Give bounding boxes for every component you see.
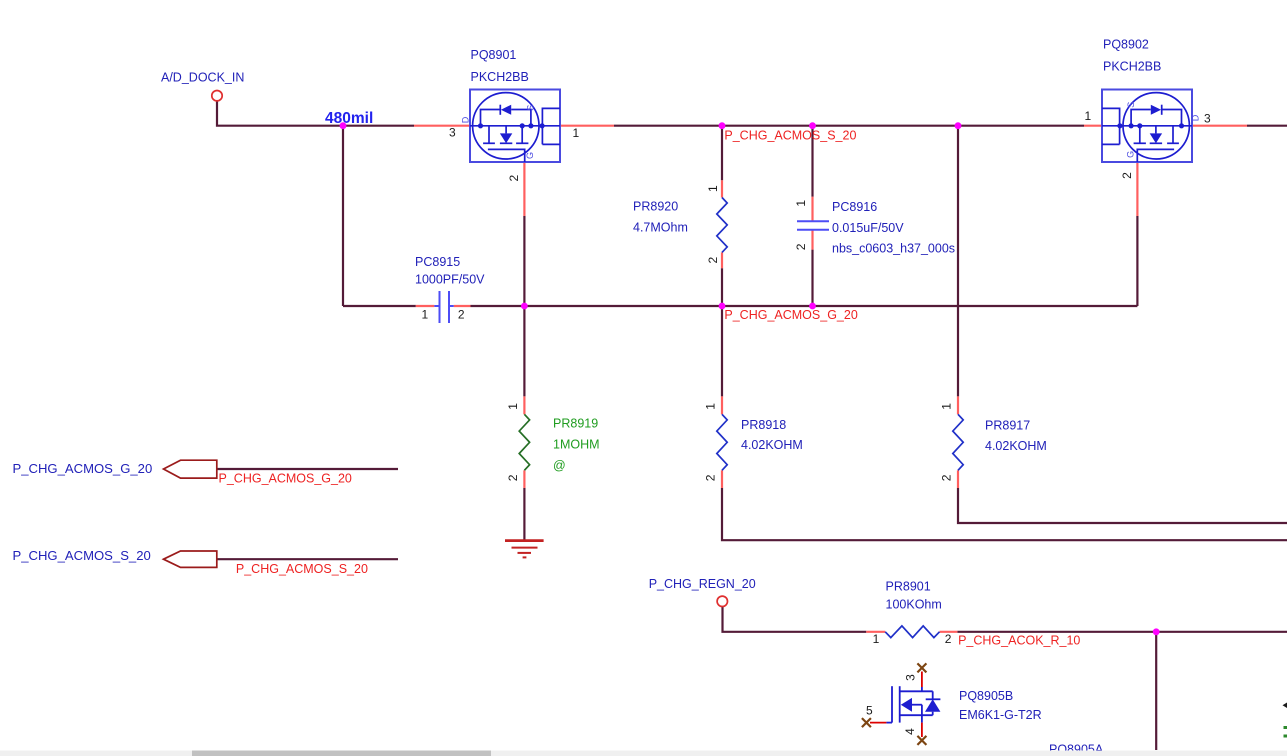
- port P_CHG_REGN_20 circle: [717, 596, 727, 606]
- transistor PQ8901: [470, 90, 560, 163]
- wire PR8917 bottom L: [958, 488, 1287, 523]
- wire PQ8901 pin2 lower: [523, 216, 525, 306]
- svg-text:A/D_DOCK_IN: A/D_DOCK_IN: [161, 71, 244, 85]
- wire stub PR8919 pin2: [523, 470, 525, 488]
- node 480mil junction: [340, 122, 347, 129]
- wire stub PC8916 pin2: [811, 230, 813, 250]
- svg-text:PKCH2BB: PKCH2BB: [1103, 60, 1161, 74]
- svg-text:S: S: [1126, 102, 1136, 108]
- wire node 958 vertical: [957, 126, 959, 397]
- net wires (dark): [217, 101, 1287, 750]
- svg-text:EM6K1-G-T2R: EM6K1-G-T2R: [959, 708, 1042, 722]
- pin stub wires (highlighted): [414, 126, 1247, 632]
- svg-text:4: 4: [903, 728, 917, 735]
- port A/D_DOCK_IN circle: [212, 91, 222, 101]
- svg-text:P_CHG_ACMOS_S_20: P_CHG_ACMOS_S_20: [13, 548, 151, 563]
- svg-text:1: 1: [706, 185, 720, 192]
- scrollbar thumb: [192, 751, 491, 756]
- svg-text:PC8915: PC8915: [415, 255, 460, 269]
- svg-text:3: 3: [904, 674, 918, 681]
- wire stub PR8901 pin1: [866, 631, 885, 633]
- node rail-PC8916: [809, 122, 816, 129]
- svg-text:PR8901: PR8901: [886, 580, 931, 594]
- svg-text:2: 2: [507, 174, 521, 181]
- wire PC8916 top: [811, 126, 813, 197]
- transistor PQ8905B: [886, 686, 940, 722]
- resistor PR8917: [953, 414, 963, 470]
- svg-text:S: S: [525, 105, 535, 111]
- scrollbar track: [0, 751, 1287, 756]
- transistor PQ8902 (mirrored): [1102, 90, 1192, 163]
- svg-text:G: G: [525, 152, 535, 159]
- wire PQ8905B gate lead: [870, 722, 886, 724]
- wire stub PC8915 pin1: [416, 305, 435, 307]
- wire stub PQ8902 pin3: [1192, 125, 1247, 127]
- svg-text:4.02KOHM: 4.02KOHM: [741, 438, 803, 452]
- resistor PR8918: [717, 414, 727, 470]
- resistor PR8901: [885, 626, 939, 638]
- wire PR8919 to ground: [523, 488, 525, 540]
- svg-text:2: 2: [945, 632, 952, 646]
- capacitor PC8916: [797, 221, 829, 230]
- wire port P_CHG_ACMOS_G_20: [217, 468, 398, 470]
- wire stub PR8901 pin2: [940, 631, 958, 633]
- svg-text:PQ8902: PQ8902: [1103, 38, 1149, 52]
- port P_CHG_ACMOS_G_20 pentagon: [164, 460, 217, 478]
- svg-text:3: 3: [1204, 112, 1211, 126]
- wire node PR8919 top: [523, 306, 525, 396]
- svg-text:PKCH2BB: PKCH2BB: [471, 70, 529, 84]
- wire P_CHG_ACOK net: [957, 631, 1287, 633]
- no-connect X pin3: [917, 663, 926, 672]
- svg-text:P_CHG_ACMOS_S_20: P_CHG_ACMOS_S_20: [236, 562, 368, 576]
- svg-text:P_CHG_REGN_20: P_CHG_REGN_20: [649, 577, 756, 591]
- svg-text:3: 3: [449, 126, 456, 140]
- svg-text:2: 2: [1120, 172, 1134, 179]
- wire 480mil vertical: [342, 126, 344, 306]
- wire main rail mid segment: [614, 125, 1084, 127]
- resistor PR8920: [717, 198, 727, 253]
- svg-text:100KOhm: 100KOhm: [886, 598, 942, 612]
- wire PC8916 bottom: [811, 250, 813, 306]
- wire stub PR8918 pin2: [721, 470, 723, 488]
- svg-text:1: 1: [1085, 109, 1092, 123]
- svg-text:1000PF/50V: 1000PF/50V: [415, 273, 485, 287]
- capacitor PC8915: [434, 291, 453, 323]
- svg-text:PR8918: PR8918: [741, 418, 786, 432]
- no-connect X pin4: [917, 736, 926, 745]
- svg-text:G: G: [1126, 151, 1136, 158]
- wire stub PC8916 pin1: [811, 197, 813, 222]
- svg-text:nbs_c0603_h37_000s: nbs_c0603_h37_000s: [832, 242, 955, 256]
- svg-text:D: D: [461, 116, 471, 123]
- svg-text:P_CHG_ACMOS_G_20: P_CHG_ACMOS_G_20: [13, 461, 153, 476]
- svg-text:1: 1: [940, 403, 954, 410]
- wire lower bus left: [343, 305, 416, 307]
- node rail-958: [955, 122, 962, 129]
- wire stub PR8920 pin2: [721, 252, 723, 268]
- svg-text:1MOHM: 1MOHM: [553, 437, 600, 451]
- right-edge green fragment 2: [1284, 735, 1287, 738]
- svg-text:2: 2: [940, 474, 954, 481]
- no-connect X pin5: [862, 718, 871, 727]
- svg-text:4.7MOhm: 4.7MOhm: [633, 221, 688, 235]
- wire stub PR8917 pin2: [957, 470, 959, 488]
- wire PR8918 top: [721, 306, 723, 396]
- svg-text:P_CHG_ACMOS_G_20: P_CHG_ACMOS_G_20: [724, 308, 857, 322]
- svg-text:1: 1: [573, 126, 580, 140]
- svg-text:P_CHG_ACMOS_S_20: P_CHG_ACMOS_S_20: [724, 129, 856, 143]
- svg-text:2: 2: [706, 257, 720, 264]
- wire P_CHG_REGN_20 drop: [723, 607, 867, 632]
- wire stub PC8915 pin2: [454, 305, 471, 307]
- wire junction 1156 vertical: [1155, 632, 1157, 750]
- node bus-PR8918: [719, 303, 726, 310]
- svg-text:4.02KOHM: 4.02KOHM: [985, 439, 1047, 453]
- wire PQ8905B source lead: [921, 723, 923, 737]
- wire stub PR8917 pin1: [957, 396, 959, 414]
- svg-text:PQ8901: PQ8901: [471, 48, 517, 62]
- node bus-PQ8901 pin2: [521, 303, 528, 310]
- right-edge arrow fragment: [1283, 703, 1287, 709]
- svg-text:PQ8905B: PQ8905B: [959, 689, 1013, 703]
- svg-text:5: 5: [866, 704, 873, 718]
- wire stub PQ8902 pin2: [1136, 162, 1138, 216]
- svg-text:2: 2: [704, 474, 718, 481]
- svg-text:PR8920: PR8920: [633, 200, 678, 214]
- svg-text:1: 1: [873, 632, 880, 646]
- port P_CHG_ACMOS_S_20 pentagon: [164, 551, 217, 567]
- ground: [505, 541, 544, 558]
- svg-text:2: 2: [794, 243, 808, 250]
- wire stub PQ8901 pin2: [523, 162, 525, 216]
- svg-text:PR8919: PR8919: [553, 417, 598, 431]
- wire PR8920 bottom: [721, 268, 723, 306]
- wire port A/D_DOCK_IN drop: [217, 101, 343, 126]
- wire PQ8902 pin2 to bus: [1136, 216, 1138, 306]
- right-edge green fragment 1: [1284, 726, 1287, 729]
- svg-text:PC8916: PC8916: [832, 200, 877, 214]
- svg-text:1: 1: [704, 403, 718, 410]
- svg-text:2: 2: [458, 307, 465, 321]
- wire stub PR8919 pin1: [523, 396, 525, 414]
- wire main rail left segment: [343, 125, 414, 127]
- node bus-PC8916: [809, 303, 816, 310]
- wire port P_CHG_ACMOS_S_20: [217, 558, 398, 560]
- svg-text:D: D: [1191, 114, 1201, 121]
- node rail-PR8920: [719, 122, 726, 129]
- node ACOK junction: [1153, 628, 1160, 635]
- wire stub PQ8902 pin1: [1084, 125, 1102, 127]
- svg-text:0.015uF/50V: 0.015uF/50V: [832, 221, 904, 235]
- svg-text:1: 1: [794, 200, 808, 207]
- svg-text:1: 1: [506, 403, 520, 410]
- svg-text:P_CHG_ACOK_R_10: P_CHG_ACOK_R_10: [958, 634, 1080, 648]
- svg-text:@: @: [553, 458, 566, 472]
- wire main rail right segment: [1247, 125, 1287, 127]
- svg-text:1: 1: [422, 307, 429, 321]
- wire stub PQ8901 pin3: [414, 125, 470, 127]
- wire PR8920 top: [721, 126, 723, 181]
- wire stub PQ8901 pin1: [560, 125, 614, 127]
- wire stub PR8920 pin1: [721, 180, 723, 197]
- svg-text:480mil: 480mil: [325, 110, 373, 127]
- svg-text:PR8917: PR8917: [985, 419, 1030, 433]
- wire PQ8905B drain lead: [921, 672, 923, 688]
- svg-text:P_CHG_ACMOS_G_20: P_CHG_ACMOS_G_20: [219, 472, 352, 486]
- wire PR8918 bottom L: [722, 488, 1287, 540]
- wire lower bus mid: [471, 305, 1138, 307]
- resistor PR8919 (green): [519, 414, 529, 470]
- wire stub PR8918 pin1: [721, 396, 723, 414]
- svg-text:2: 2: [506, 474, 520, 481]
